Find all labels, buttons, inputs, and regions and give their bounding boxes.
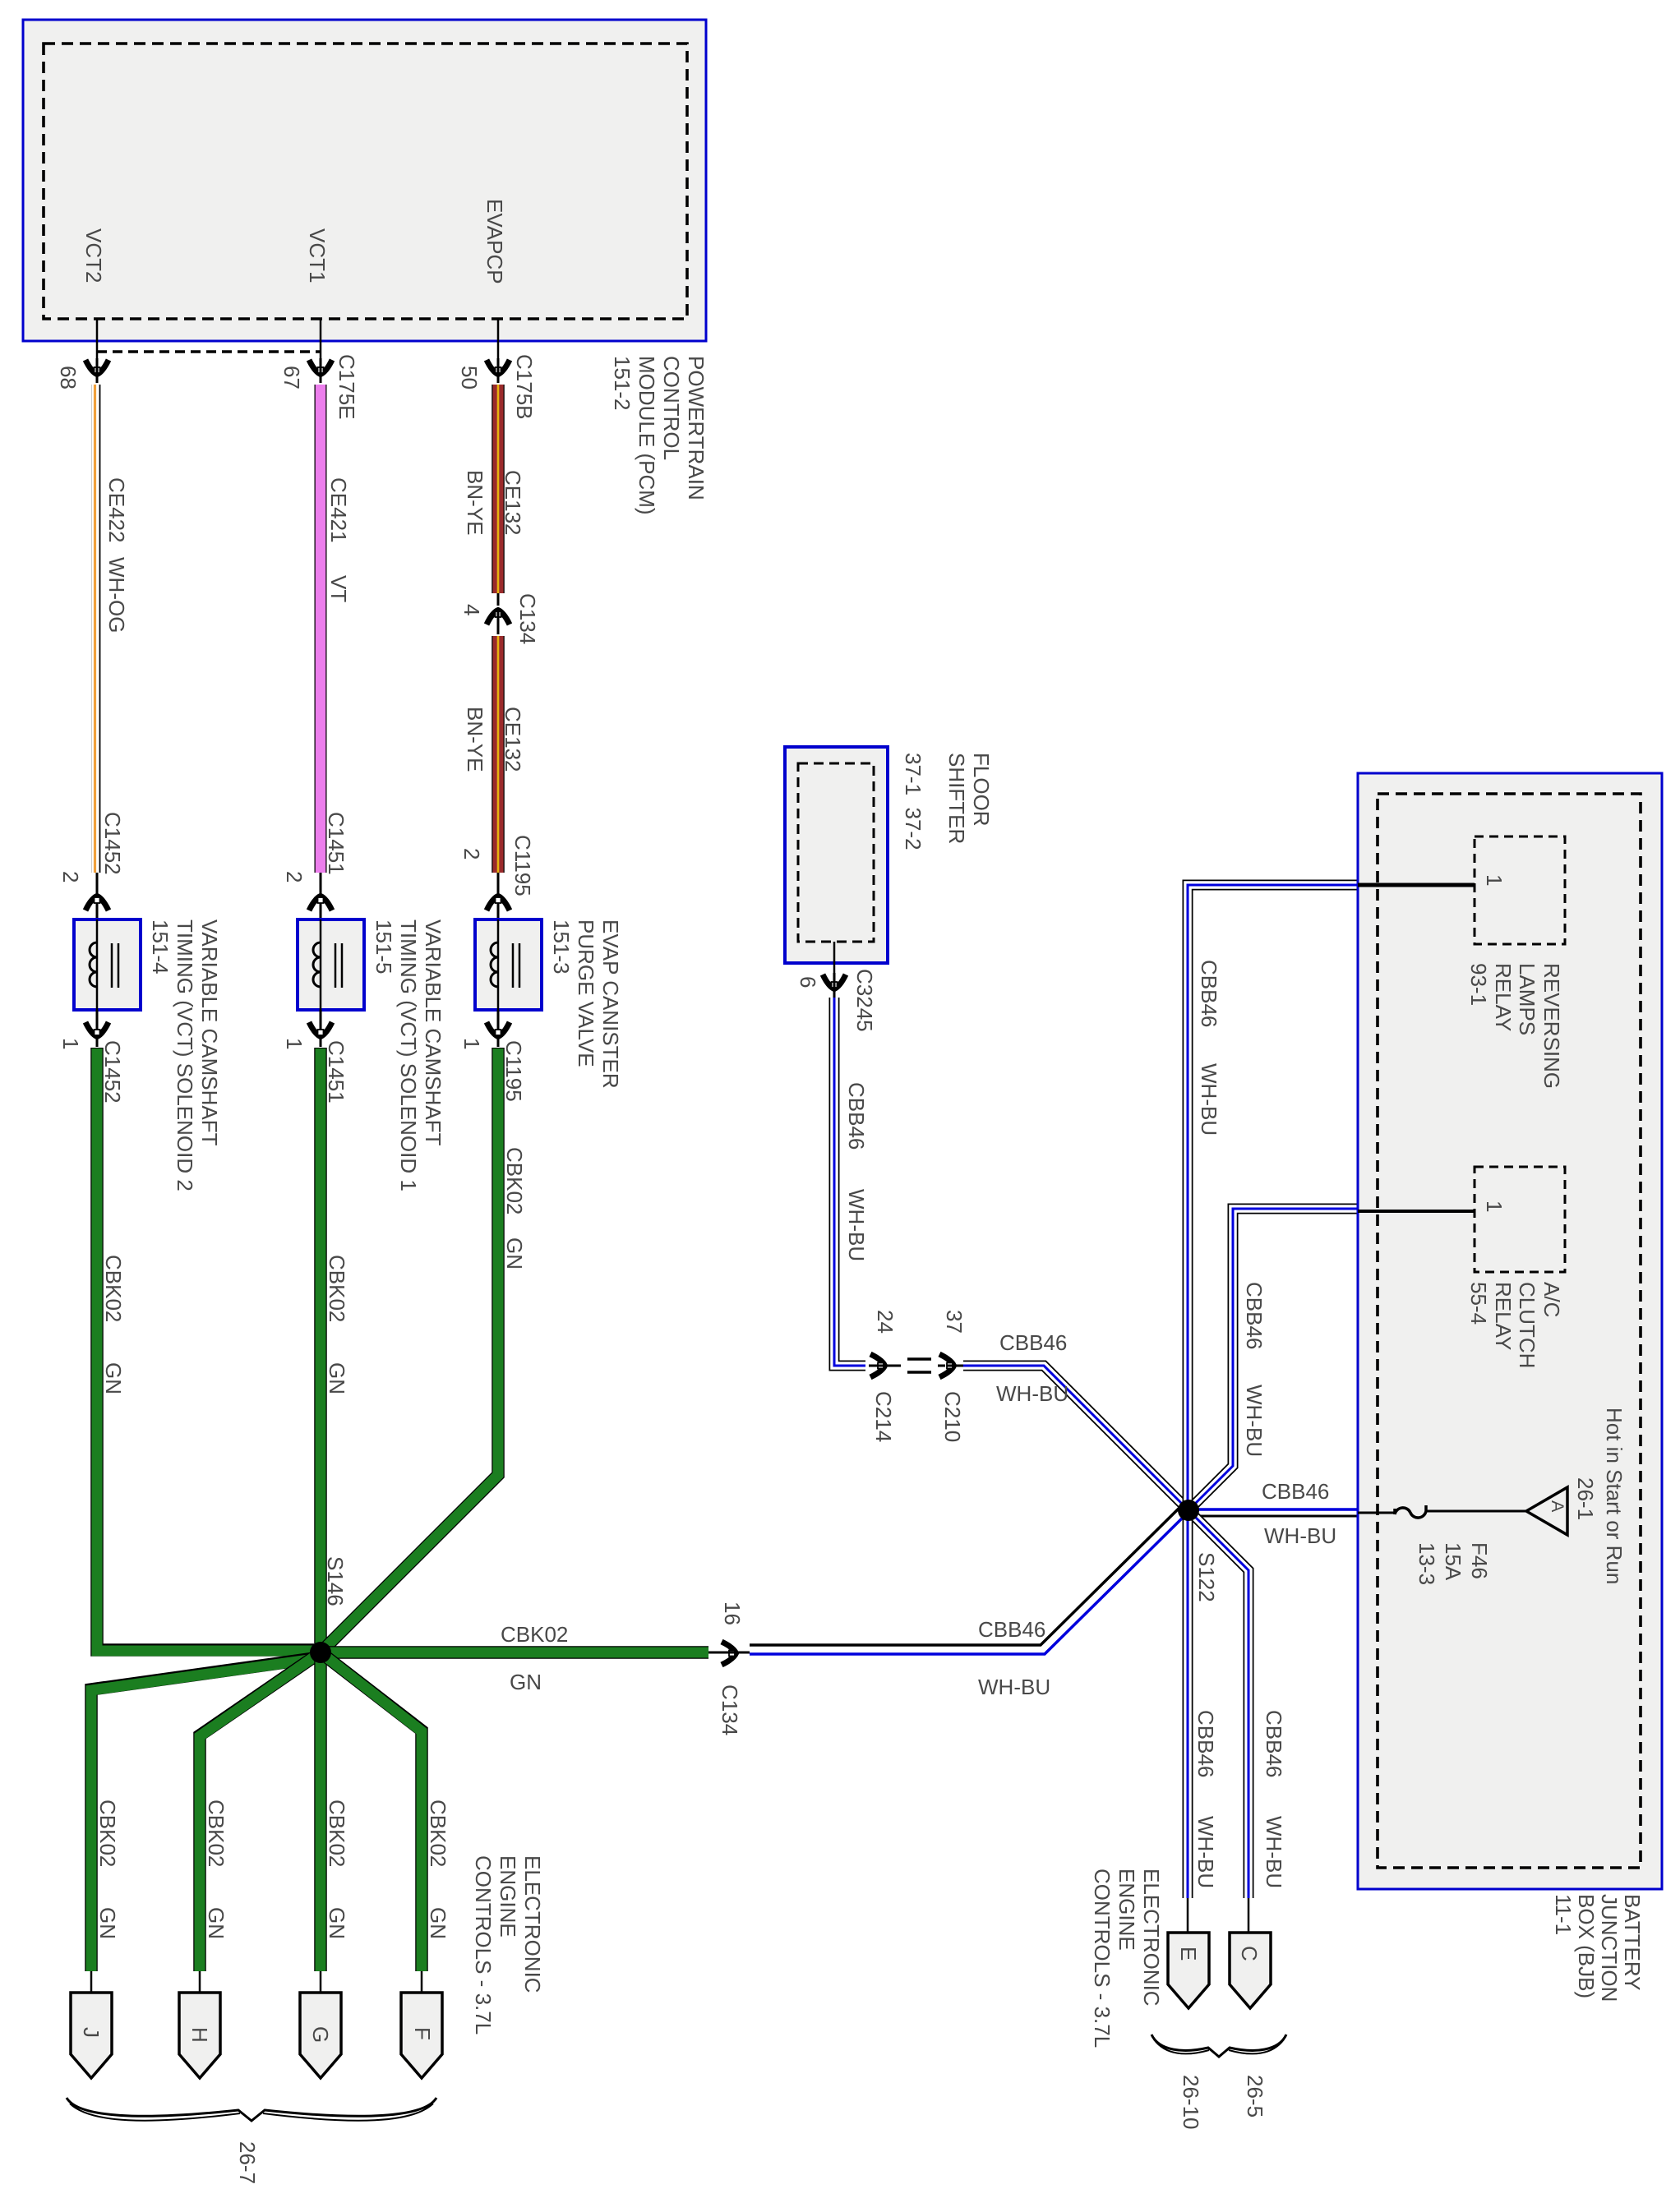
- svg-text:F: F: [410, 2027, 435, 2040]
- svg-text:H: H: [187, 2027, 212, 2043]
- terminal stem F: [421, 1971, 423, 1994]
- svg-text:S122: S122: [1194, 1552, 1219, 1602]
- harness gap symbol between C214 and C210: [907, 1359, 931, 1372]
- wire CE132 BN-YE lower segment (C134 to EVAP valve): [492, 636, 505, 873]
- coil symbol VCT solenoid 2: [90, 942, 97, 987]
- splice S146: [310, 1642, 331, 1663]
- svg-text:POWERTRAIN: POWERTRAIN: [684, 356, 708, 500]
- terminal E: [1168, 1933, 1209, 2008]
- terminal F: [401, 1993, 442, 2078]
- svg-text:WH-BU: WH-BU: [844, 1189, 869, 1261]
- svg-text:CBB46: CBB46: [844, 1082, 869, 1150]
- svg-text:C1452: C1452: [100, 812, 125, 875]
- component A/C CLUTCH RELAY dashed box: [1475, 1167, 1565, 1272]
- connector arrow pin 1 VCT solenoid 2 (down): [96, 1010, 99, 1047]
- wire CBB46 WH-BU from splice S122 to A/C clutch relay: [1188, 1209, 1358, 1510]
- svg-text:CONTROLS - 3.7L: CONTROLS - 3.7L: [1090, 1869, 1115, 2048]
- svg-text:C1195: C1195: [510, 835, 535, 896]
- svg-text:FLOOR: FLOOR: [969, 753, 994, 827]
- svg-text:4: 4: [459, 604, 484, 615]
- svg-text:E: E: [1176, 1947, 1201, 1961]
- wire to A/C clutch relay pin 1: [1358, 1210, 1475, 1213]
- wire from fuse to power triangle: [1426, 1510, 1526, 1513]
- svg-text:VT: VT: [326, 575, 351, 602]
- svg-text:WH-BU: WH-BU: [1193, 1816, 1218, 1888]
- svg-text:S146: S146: [323, 1556, 348, 1606]
- svg-text:2: 2: [282, 871, 307, 882]
- module BJB inner dashed boundary: [1378, 794, 1641, 1868]
- connector arrow pin 68 (down): [85, 360, 108, 375]
- svg-text:WH-BU: WH-BU: [978, 1675, 1050, 1699]
- inline connector C134 pin 16 (green to WH-BU): [708, 1652, 719, 1654]
- svg-text:26-5: 26-5: [1243, 2075, 1267, 2118]
- svg-text:C1195: C1195: [501, 1040, 526, 1102]
- svg-text:2: 2: [58, 871, 83, 882]
- svg-text:VARIABLE CAMSHAFT: VARIABLE CAMSHAFT: [197, 919, 222, 1146]
- svg-text:1: 1: [1482, 874, 1507, 886]
- svg-text:GN: GN: [204, 1907, 228, 1939]
- svg-text:CLUTCH: CLUTCH: [1515, 1282, 1539, 1368]
- svg-text:68: 68: [56, 366, 81, 389]
- svg-text:ELECTRONIC: ELECTRONIC: [1139, 1869, 1164, 2007]
- svg-text:1: 1: [1482, 1200, 1507, 1212]
- wire CBK02 GN from splice S146 to terminal F: [321, 1652, 422, 1971]
- connector arrow pin 2 VCT solenoid 2 (up): [96, 873, 99, 919]
- wire stem pin 50: [497, 319, 500, 358]
- svg-text:C134: C134: [515, 593, 540, 644]
- svg-text:BOX (BJB): BOX (BJB): [1574, 1894, 1599, 1998]
- wire CBK02 GN from splice S146 to terminal H: [200, 1652, 321, 1971]
- svg-text:EVAP CANISTER: EVAP CANISTER: [598, 919, 623, 1089]
- module FLOOR SHIFTER box: [785, 747, 888, 963]
- svg-text:GN: GN: [325, 1907, 349, 1939]
- svg-text:A: A: [1548, 1500, 1567, 1513]
- svg-text:SHIFTER: SHIFTER: [944, 753, 969, 844]
- wire CBB46 WH-BU from splice S122 to fuse F46: [1193, 1508, 1358, 1511]
- svg-text:26-10: 26-10: [1179, 2075, 1203, 2130]
- svg-text:J: J: [79, 2027, 104, 2038]
- svg-text:26-7: 26-7: [235, 2141, 260, 2184]
- coil symbol EVAP purge valve: [491, 942, 498, 987]
- splice S122: [1178, 1500, 1199, 1521]
- svg-text:CE422: CE422: [104, 477, 129, 543]
- svg-text:13-3: 13-3: [1415, 1542, 1439, 1585]
- wire CBK02 GN from splice S146 to C134 pin 16: [321, 1646, 708, 1659]
- wire CBB46 WH-BU from splice S122 to terminal E: [1183, 1510, 1193, 1898]
- terminal stem E: [1187, 1898, 1189, 1934]
- svg-text:WH-BU: WH-BU: [1197, 1063, 1221, 1136]
- svg-text:TIMING (VCT) SOLENOID 2: TIMING (VCT) SOLENOID 2: [173, 919, 197, 1191]
- svg-text:CONTROLS - 3.7L: CONTROLS - 3.7L: [471, 1855, 496, 2035]
- svg-text:VARIABLE CAMSHAFT: VARIABLE CAMSHAFT: [421, 919, 445, 1146]
- svg-text:C1452: C1452: [100, 1040, 125, 1104]
- svg-text:REVERSING: REVERSING: [1539, 963, 1564, 1089]
- svg-text:CBK02: CBK02: [204, 1800, 228, 1867]
- connector arrow pin 2 VCT solenoid 1 (up): [320, 873, 322, 919]
- connector arrow pin 1 VCT solenoid 1 (down): [320, 1010, 322, 1047]
- svg-text:BATTERY: BATTERY: [1620, 1894, 1645, 1991]
- svg-text:WH-BU: WH-BU: [996, 1381, 1068, 1406]
- svg-text:37-1 37-2: 37-1 37-2: [901, 753, 925, 850]
- terminal stem H: [199, 1971, 201, 1994]
- svg-text:CBB46: CBB46: [1262, 1710, 1286, 1777]
- svg-text:PURGE VALVE: PURGE VALVE: [574, 919, 598, 1067]
- svg-text:CBB46: CBB46: [1262, 1479, 1329, 1504]
- svg-text:11-1: 11-1: [1551, 1894, 1576, 1935]
- component VCT solenoid 2 box: [74, 919, 141, 1010]
- svg-text:ENGINE: ENGINE: [1115, 1869, 1139, 1951]
- svg-text:1: 1: [282, 1038, 307, 1049]
- svg-text:TIMING (VCT) SOLENOID 1: TIMING (VCT) SOLENOID 1: [396, 919, 421, 1191]
- connector arrow pin 67 (down): [309, 360, 332, 375]
- wire CBB46 WH-BU from C210 to splice S122: [963, 1366, 1188, 1510]
- svg-text:WH-BU: WH-BU: [1262, 1816, 1286, 1888]
- wire CBK02 GN from VCT solenoid 2 to splice S146: [97, 1048, 314, 1651]
- wire from border to fuse F46: [1358, 1512, 1396, 1514]
- wire CBK02 GN from EVAP purge valve to splice S146: [321, 1048, 498, 1652]
- coil symbol VCT solenoid 1: [313, 942, 321, 987]
- connector arrow pin 1 EVAP purge valve (down): [497, 1010, 500, 1047]
- svg-text:1: 1: [58, 1038, 83, 1049]
- terminal stem C: [1248, 1898, 1250, 1934]
- inline connector C214 pin 24: [870, 1354, 885, 1377]
- fuse F46 15A: [1395, 1505, 1426, 1518]
- svg-text:55-4: 55-4: [1466, 1282, 1491, 1325]
- svg-text:GN: GN: [502, 1237, 527, 1270]
- terminal stem J: [90, 1971, 93, 1994]
- svg-text:F46: F46: [1467, 1542, 1492, 1579]
- brace group E/C: [1152, 2035, 1286, 2057]
- svg-text:C214: C214: [871, 1391, 896, 1442]
- svg-text:JUNCTION: JUNCTION: [1597, 1894, 1622, 2002]
- svg-text:MODULE (PCM): MODULE (PCM): [635, 356, 659, 515]
- wire stem pin 68: [96, 319, 99, 358]
- svg-text:1: 1: [459, 1038, 484, 1049]
- svg-text:151-3: 151-3: [549, 919, 574, 975]
- svg-text:CE132: CE132: [501, 470, 525, 536]
- connector C175E dashed link line pins 68-67: [97, 350, 321, 353]
- svg-text:CBB46: CBB46: [999, 1330, 1067, 1355]
- svg-text:151-5: 151-5: [372, 919, 396, 975]
- svg-text:C: C: [1237, 1946, 1262, 1961]
- terminal H: [179, 1993, 220, 2078]
- svg-text:6: 6: [796, 976, 820, 988]
- wire CBB46 WH-BU floor shifter to C214: [834, 998, 865, 1366]
- svg-text:GN: GN: [101, 1362, 126, 1394]
- svg-text:GN: GN: [426, 1907, 450, 1939]
- wire CBK02 GN from splice S146 to terminal G: [314, 1652, 327, 1971]
- svg-text:BN-YE: BN-YE: [463, 707, 487, 772]
- component VCT solenoid 1 box: [298, 919, 364, 1010]
- svg-text:16: 16: [720, 1601, 745, 1625]
- svg-text:CBB46: CBB46: [1193, 1710, 1218, 1777]
- svg-text:VCT1: VCT1: [305, 228, 330, 283]
- svg-text:CBK02: CBK02: [501, 1622, 568, 1647]
- connector arrow pin 6 floor shifter (down): [833, 942, 836, 973]
- wire CBB46 WH-BU from C134 pin 16 to splice S122: [750, 1503, 1184, 1645]
- svg-text:Hot in Start or Run: Hot in Start or Run: [1602, 1408, 1627, 1584]
- svg-text:RELAY: RELAY: [1491, 1282, 1516, 1350]
- svg-text:67: 67: [279, 366, 304, 389]
- svg-text:C175E: C175E: [335, 354, 359, 420]
- svg-text:VCT2: VCT2: [81, 228, 106, 283]
- svg-text:CBK02: CBK02: [502, 1147, 527, 1214]
- module FLOOR SHIFTER inner dashed boundary: [798, 763, 874, 942]
- svg-text:37: 37: [942, 1310, 967, 1334]
- terminal G: [300, 1993, 341, 2078]
- svg-text:GN: GN: [510, 1670, 542, 1694]
- svg-text:CBK02: CBK02: [325, 1800, 349, 1867]
- svg-text:C3245: C3245: [852, 969, 877, 1032]
- svg-text:GN: GN: [325, 1362, 349, 1394]
- wire CBB46 WH-BU from splice S122 to terminal C: [1188, 1510, 1248, 1898]
- connector arrow pin 50 (down): [487, 360, 510, 375]
- svg-text:CE132: CE132: [501, 707, 525, 772]
- svg-text:RELAY: RELAY: [1491, 963, 1516, 1031]
- wire CBK02 GN from splice S146 to terminal J: [91, 1657, 321, 1971]
- svg-text:CBK02: CBK02: [101, 1255, 126, 1322]
- svg-text:CONTROL: CONTROL: [659, 356, 684, 460]
- component EVAP canister purge valve box: [475, 919, 542, 1010]
- wire CE421 VT (pin 67 to VCT solenoid 1): [315, 385, 327, 873]
- svg-text:CBB46: CBB46: [1242, 1282, 1267, 1349]
- module PCM (Powertrain Control Module) outer box: [23, 20, 706, 341]
- svg-text:15A: 15A: [1441, 1542, 1465, 1581]
- svg-text:C210: C210: [940, 1391, 965, 1442]
- svg-text:C1451: C1451: [324, 1040, 348, 1104]
- svg-text:BN-YE: BN-YE: [463, 470, 487, 535]
- svg-text:C134: C134: [718, 1684, 742, 1735]
- svg-text:CBK02: CBK02: [95, 1800, 120, 1867]
- svg-text:2: 2: [459, 848, 484, 859]
- svg-text:ELECTRONIC: ELECTRONIC: [520, 1855, 545, 1993]
- svg-text:WH-BU: WH-BU: [1264, 1523, 1336, 1548]
- svg-text:A/C: A/C: [1539, 1282, 1564, 1317]
- svg-text:CBB46: CBB46: [978, 1617, 1045, 1642]
- svg-text:ENGINE: ENGINE: [496, 1855, 520, 1938]
- wire CBK02 GN from VCT solenoid 1 to splice S146: [314, 1048, 327, 1652]
- svg-text:26-1: 26-1: [1573, 1477, 1598, 1520]
- svg-text:WH-OG: WH-OG: [104, 557, 129, 633]
- brace group 26-7: [67, 2098, 436, 2121]
- svg-text:93-1: 93-1: [1466, 963, 1491, 1006]
- power source triangle A: [1526, 1487, 1567, 1535]
- svg-text:CBK02: CBK02: [325, 1255, 349, 1322]
- svg-text:151-2: 151-2: [610, 356, 635, 411]
- svg-text:CE421: CE421: [326, 477, 351, 543]
- svg-text:WH-BU: WH-BU: [1242, 1385, 1267, 1457]
- module Battery Junction Box (BJB) outer box: [1358, 773, 1662, 1889]
- wire CBB46 WH-BU from splice S122 to reversing lamps relay: [1188, 885, 1358, 1510]
- svg-text:G: G: [308, 2026, 333, 2043]
- svg-text:EVAPCP: EVAPCP: [482, 199, 507, 284]
- wire stem pin 67: [320, 319, 322, 358]
- wire to reversing lamps relay pin 1: [1358, 883, 1475, 887]
- svg-text:C175B: C175B: [512, 354, 537, 420]
- inline connector C134 pin 4: [497, 593, 500, 606]
- svg-text:LAMPS: LAMPS: [1515, 963, 1539, 1035]
- svg-text:151-4: 151-4: [148, 919, 173, 975]
- terminal stem G: [320, 1971, 322, 1994]
- wire CE132 BN-YE upper segment (pin 50 to C134): [492, 385, 505, 593]
- svg-text:C1451: C1451: [324, 812, 348, 875]
- svg-text:CBK02: CBK02: [426, 1800, 450, 1867]
- connector arrow pin 2 EVAP purge valve (up): [497, 873, 500, 919]
- wire CE422 WH-OG (pin 68 to VCT solenoid 2): [92, 385, 100, 873]
- svg-text:50: 50: [457, 366, 482, 389]
- svg-text:CBB46: CBB46: [1197, 960, 1221, 1027]
- terminal J: [71, 1993, 112, 2078]
- component REVERSING LAMPS RELAY dashed box: [1475, 836, 1565, 944]
- module PCM inner dashed boundary: [44, 44, 687, 319]
- svg-text:GN: GN: [95, 1907, 120, 1939]
- svg-text:24: 24: [873, 1310, 898, 1334]
- inline connector C210 pin 37: [938, 1365, 945, 1367]
- terminal C: [1230, 1933, 1271, 2008]
